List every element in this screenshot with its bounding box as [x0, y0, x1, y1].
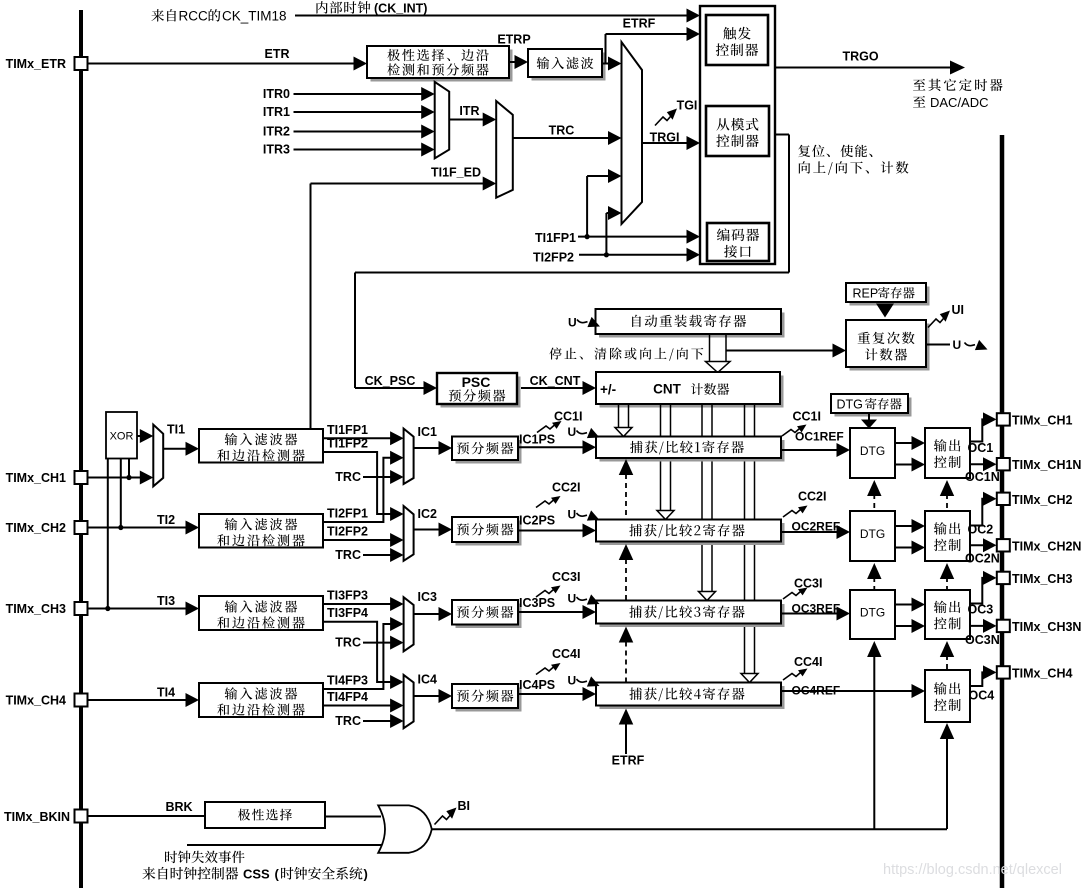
svg-text:DTG: DTG	[837, 398, 863, 412]
mux IC1 select	[404, 429, 414, 484]
node label 时钟失效事件	[165, 851, 177, 863]
box polarity-select edge-detect prescaler 极性选择、边沿检测和预分频器	[371, 50, 513, 82]
svg-text:CC1I: CC1I	[793, 410, 821, 424]
box polarity select 极性选择	[205, 802, 325, 828]
svg-text:RCC: RCC	[179, 9, 208, 24]
svg-text:CC3I: CC3I	[552, 570, 580, 584]
wire TI4FP3 up to IC3 mux	[323, 624, 395, 689]
node label 至其它定时器	[913, 79, 925, 91]
port TIMx_CH1N	[997, 458, 1010, 470]
wire OC2N	[970, 544, 988, 546]
svg-text:IC4PS: IC4PS	[519, 678, 555, 692]
port TIMx_CH1	[997, 413, 1010, 425]
svg-text:TIMx_CH2: TIMx_CH2	[6, 521, 66, 535]
svg-text:CC3I: CC3I	[794, 577, 822, 591]
gate XOR	[106, 412, 137, 459]
node label 来自时钟控制器 CSS (时钟安全系统)	[142, 867, 155, 880]
svg-text:TIMx_CH1: TIMx_CH1	[1012, 413, 1072, 427]
wire OC3N	[970, 625, 988, 627]
svg-text:TIMx_CH4: TIMx_CH4	[6, 694, 66, 708]
box capture/compare register 4 捕获/比较寄存器	[600, 686, 785, 709]
svg-text:CC1I: CC1I	[554, 410, 582, 424]
svg-text:ITR1: ITR1	[263, 105, 290, 119]
box encoder interface 编码器接口	[707, 223, 769, 261]
svg-text:OC1REF: OC1REF	[795, 430, 844, 444]
box DTG 2	[850, 511, 895, 561]
box output control 3 输出控制	[925, 590, 970, 639]
svg-text:OC2: OC2	[968, 523, 994, 537]
svg-text:CSS: CSS	[243, 867, 270, 882]
svg-text:PSC: PSC	[462, 374, 491, 390]
wire right output bus	[1000, 135, 1005, 888]
wire OC2	[970, 499, 988, 526]
box output control 4 输出控制	[925, 670, 970, 722]
svg-text:TRC: TRC	[335, 636, 361, 650]
svg-text:TIMx_ETR: TIMx_ETR	[6, 57, 66, 71]
svg-text:(: (	[275, 867, 280, 882]
wire ETRF to trigger controller	[602, 63, 613, 65]
wire TI2FP2 into IC2 mux	[323, 539, 395, 541]
wire break signal to DTG3	[867, 641, 881, 657]
svg-text:U: U	[568, 592, 577, 606]
box output control 2 输出控制	[925, 511, 970, 561]
wire DTG commutation chain dashed	[867, 480, 881, 496]
wire CNT to capture2 hollow arrow	[660, 404, 662, 511]
svg-text:IC2PS: IC2PS	[519, 514, 555, 528]
svg-text:OC3: OC3	[968, 603, 994, 617]
wire DTG1 outputs	[895, 442, 914, 444]
svg-text:U: U	[568, 425, 577, 439]
mux TRC select	[496, 101, 513, 198]
mux IC4 select	[404, 675, 414, 728]
wire IC4	[414, 695, 443, 697]
wire REP to repetition counter arrow	[876, 304, 894, 318]
svg-text:ITR2: ITR2	[263, 125, 290, 139]
svg-text:): )	[364, 867, 368, 882]
svg-text:TI1: TI1	[167, 423, 185, 437]
svg-text:CC4I: CC4I	[552, 647, 580, 661]
svg-text:TI2FP1: TI2FP1	[327, 507, 368, 521]
wire output control commutation chain dashed	[940, 480, 954, 496]
port TIMx_CH3N	[997, 620, 1010, 632]
box prescaler row 2 预分频器	[456, 521, 522, 546]
wire OC4	[970, 672, 988, 686]
svg-text:ITR0: ITR0	[263, 87, 290, 101]
wire to repetition counter	[726, 350, 837, 352]
wire left MOE bus	[79, 10, 83, 888]
svg-text:TIMx_CH1: TIMx_CH1	[6, 471, 66, 485]
svg-text:ITR: ITR	[459, 104, 479, 118]
mux IC2 select	[404, 506, 414, 561]
wire TI4FP4 into IC4 mux	[323, 705, 395, 707]
svg-text:ETRF: ETRF	[623, 17, 656, 31]
wire OC3	[970, 578, 988, 604]
box auto-reload register 自动重装载寄存器	[599, 313, 785, 338]
svg-text:TI3FP3: TI3FP3	[327, 589, 368, 603]
svg-text:CK_CNT: CK_CNT	[530, 374, 581, 388]
wire IC2	[414, 529, 443, 531]
mux IC3 select	[404, 597, 414, 651]
svg-text:TI3FP4: TI3FP4	[327, 606, 368, 620]
svg-text:TGI: TGI	[677, 99, 698, 113]
mux ITR select	[435, 82, 450, 158]
svg-text:DTG: DTG	[860, 444, 885, 458]
svg-text:CK_TIM18: CK_TIM18	[222, 9, 287, 24]
node label 停止、清除或向上/向下	[549, 347, 561, 359]
wire slave controller to clock path	[775, 134, 789, 136]
svg-text:OC1: OC1	[968, 441, 994, 455]
svg-text:DAC/ADC: DAC/ADC	[930, 95, 989, 110]
wire IC1	[414, 447, 443, 449]
svg-text:TI4FP3: TI4FP3	[327, 674, 368, 688]
svg-text:TI1FP1: TI1FP1	[535, 231, 576, 245]
svg-text:CC2I: CC2I	[798, 490, 826, 504]
box DTG register DTG寄存器	[835, 398, 912, 417]
node CK_INT label 来自RCC的CK_TIM18	[151, 9, 164, 21]
wire auto-reload to CNT hollow arrow	[709, 334, 711, 362]
svg-text:https://blog.csdn.net/qlexcel: https://blog.csdn.net/qlexcel	[883, 862, 1062, 878]
svg-text:ETRP: ETRP	[497, 33, 530, 47]
wire DTG2 outputs	[895, 525, 914, 527]
svg-text:TI2: TI2	[157, 513, 175, 527]
svg-text:IC1PS: IC1PS	[519, 433, 555, 447]
svg-text:TIMx_CH1N: TIMx_CH1N	[1012, 458, 1081, 472]
svg-text:BI: BI	[458, 799, 471, 813]
gate OR break	[325, 816, 381, 818]
svg-text:ETRF: ETRF	[612, 754, 645, 768]
svg-text:TI2FP2: TI2FP2	[533, 251, 574, 265]
wire TI2FP1 up to IC1 mux	[323, 458, 395, 522]
wire OC1	[970, 419, 988, 441]
svg-text:TIMx_CH2: TIMx_CH2	[1012, 493, 1072, 507]
svg-text:+/-: +/-	[600, 382, 616, 397]
svg-text:TRC: TRC	[335, 470, 361, 484]
box CNT counter CNT计数器	[600, 376, 784, 408]
wire TIMx_CH1 to TI1 mux	[88, 477, 146, 479]
svg-text:TI1F_ED: TI1F_ED	[431, 166, 481, 180]
svg-text:CC4I: CC4I	[794, 655, 822, 669]
box capture/compare register 3 捕获/比较寄存器	[600, 604, 785, 627]
svg-text:TI4: TI4	[157, 686, 175, 700]
node U event out of repetition counter	[926, 344, 950, 346]
wire TI3FP4 down to IC4 mux	[323, 622, 395, 682]
wire TI1FP2 down to IC2 mux	[323, 452, 395, 514]
wire TI1FP1 into IC1 mux	[323, 437, 395, 439]
svg-text:IC3PS: IC3PS	[519, 596, 555, 610]
svg-text:CK_PSC: CK_PSC	[365, 374, 416, 388]
svg-text:IC3: IC3	[418, 590, 438, 604]
node 内部时钟 (CK_INT) label	[316, 1, 327, 13]
box input filter edge detector 1 输入滤波器和边沿检测器	[199, 429, 323, 463]
svg-text:IC2: IC2	[418, 507, 438, 521]
box prescaler row 3 预分频器	[456, 604, 522, 629]
svg-text:TRC: TRC	[549, 124, 575, 138]
svg-text:OC2N: OC2N	[965, 552, 1000, 566]
svg-text:TI1FP1: TI1FP1	[327, 423, 368, 437]
node label 至 DAC/ADC	[913, 96, 925, 108]
wire TI3FP3 into IC3 mux	[323, 603, 395, 605]
svg-text:REP: REP	[853, 287, 879, 301]
box DTG 3	[850, 590, 895, 639]
svg-text:TIMx_BKIN: TIMx_BKIN	[4, 810, 70, 824]
box slave mode controller 从模式控制器	[706, 106, 769, 156]
box repetition counter 重复次数计数器	[850, 324, 930, 371]
svg-text:TRGO: TRGO	[842, 50, 878, 64]
svg-text:U: U	[568, 508, 577, 522]
wire CNT to capture3 hollow arrow	[701, 404, 703, 592]
svg-text:OC1N: OC1N	[965, 470, 1000, 484]
port TIMx_CH3	[997, 572, 1010, 584]
port TIMx_CH2	[997, 493, 1010, 505]
svg-text:ETR: ETR	[265, 47, 290, 61]
box REP register REP寄存器	[850, 287, 930, 306]
svg-text:(CK_INT): (CK_INT)	[374, 2, 427, 16]
wire BI output	[432, 828, 947, 830]
wire DTG3 outputs	[895, 604, 914, 606]
mux TRGI select	[622, 42, 643, 224]
svg-text:ITR3: ITR3	[263, 143, 290, 157]
mux TI1 select	[137, 435, 145, 437]
svg-text:TRC: TRC	[335, 548, 361, 562]
box capture/compare register 1 捕获/比较寄存器	[600, 440, 785, 462]
svg-text:TIMx_CH2N: TIMx_CH2N	[1012, 539, 1081, 553]
box input filter edge detector 4 输入滤波器和边沿检测器	[199, 683, 323, 717]
svg-text:TI2FP2: TI2FP2	[327, 525, 368, 539]
svg-text:BRK: BRK	[165, 800, 192, 814]
box trigger controller 触发控制器	[706, 15, 768, 65]
box prescaler row 1 预分频器	[456, 440, 522, 464]
svg-text:TRC: TRC	[335, 714, 361, 728]
svg-text:IC1: IC1	[418, 425, 438, 439]
wire CK_INT to trigger controller	[295, 15, 691, 17]
node label 复位、使能、向上/向下、计数	[798, 145, 810, 157]
wire CNT to capture4 hollow arrow	[744, 404, 746, 674]
svg-text:TI3: TI3	[157, 594, 175, 608]
box PSC prescaler PSC预分频器	[441, 377, 521, 408]
svg-text:OC3N: OC3N	[965, 633, 1000, 647]
svg-text:TI4FP4: TI4FP4	[327, 690, 368, 704]
svg-text:IC4: IC4	[418, 673, 438, 687]
wire CNT to capture1 hollow arrow	[618, 404, 620, 428]
svg-text:UI: UI	[952, 303, 965, 317]
box controller outer frame	[700, 6, 775, 264]
wire IC3	[414, 613, 443, 615]
svg-text:CNT: CNT	[653, 382, 681, 397]
wire capture event chain dashed	[619, 459, 634, 475]
svg-text:U: U	[568, 674, 577, 688]
svg-text:TIMx_CH3: TIMx_CH3	[6, 602, 66, 616]
box capture/compare register 2 捕获/比较寄存器	[600, 523, 785, 545]
svg-text:DTG: DTG	[860, 527, 885, 541]
port TIMx_CH4	[997, 666, 1010, 678]
svg-text:DTG: DTG	[860, 606, 885, 620]
box input filter edge detector 2 输入滤波器和边沿检测器	[199, 514, 323, 548]
svg-text:U: U	[568, 316, 577, 330]
svg-text:U: U	[953, 338, 962, 352]
box prescaler row 4 预分频器	[456, 688, 522, 712]
wire break signal to output control 4	[940, 723, 954, 739]
svg-text:TIMx_CH3N: TIMx_CH3N	[1012, 620, 1081, 634]
svg-text:XOR: XOR	[110, 431, 134, 443]
box input filter edge detector 3 输入滤波器和边沿检测器	[199, 596, 323, 630]
svg-text:OC4: OC4	[969, 689, 995, 703]
wire ETRF into capture4	[619, 709, 634, 725]
box input filter 输入滤波	[532, 53, 606, 81]
box output control 1 输出控制	[925, 428, 970, 478]
svg-text:TIMx_CH3: TIMx_CH3	[1012, 572, 1072, 586]
box DTG 1	[850, 428, 895, 478]
port TIMx_CH2N	[997, 539, 1010, 551]
wire OC1N	[970, 463, 988, 465]
svg-text:TIMx_CH4: TIMx_CH4	[1012, 666, 1072, 680]
svg-text:CC2I: CC2I	[552, 481, 580, 495]
wire DTG register to DTG1	[868, 413, 870, 420]
